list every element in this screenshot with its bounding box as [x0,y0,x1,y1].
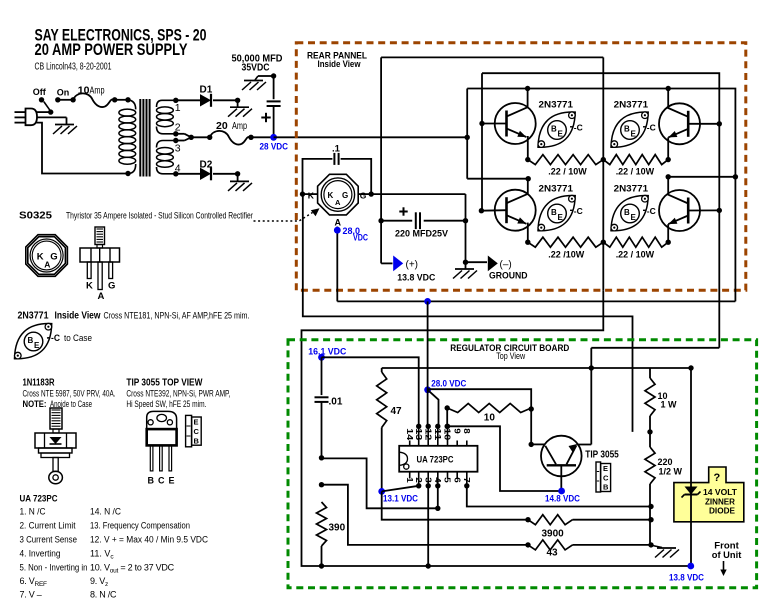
pin list row 4 [20,549,115,561]
IC U1 UA723PC body [399,446,477,472]
wire Q3 emitter [666,137,671,162]
svg-text:Cross NTE 5987, 50V PRV, 40A.: Cross NTE 5987, 50V PRV, 40A. [23,389,116,399]
svg-text:B: B [194,437,200,446]
svg-text:9: 9 [452,428,462,434]
capacitor .1 [303,153,372,194]
svg-text:2N3771: 2N3771 [614,184,649,195]
label 28.0 VDC reg [431,379,466,389]
plus output arrow [393,256,403,272]
thyristor K lead [300,191,318,196]
resistor R5 390 [317,458,327,569]
package Q4 [611,195,656,231]
label 2N3771 Q4 [614,184,649,195]
svg-text:14: 14 [405,428,415,440]
resistor R10 10 1W [645,368,655,435]
svg-text:TIP 3055: TIP 3055 [585,450,619,461]
resistor R9 43 [528,540,654,550]
svg-text:TIP 3055 TOP VIEW: TIP 3055 TOP VIEW [126,377,202,388]
svg-text:14 VOLT: 14 VOLT [703,488,737,497]
wire G to cap ground [371,194,465,262]
svg-text:A: A [98,291,105,302]
label 13.8 VDC out [669,573,704,583]
wire 13.8 output vertical [690,368,692,566]
wire 16.1 to pin13 [322,357,419,426]
wire TIP emitter down [590,368,592,445]
dotted annotation arrow to S0325 [254,208,320,221]
tap label 3 [175,142,181,154]
package Q2 [538,195,583,231]
svg-text:2N3771: 2N3771 [539,184,574,195]
label + C1 [261,113,270,122]
svg-text:47: 47 [391,406,403,417]
pin list row 5 [20,563,175,575]
svg-text:14.8 VDC: 14.8 VDC [545,494,580,504]
transistor Q5 TIP3055 [531,436,591,491]
wire pin7 line [467,486,654,509]
svg-text:Amp: Amp [90,84,105,96]
svg-text:7. V –: 7. V – [20,590,42,600]
svg-text:K: K [37,252,44,263]
node 28VDC [270,134,277,141]
svg-text:E: E [631,130,637,139]
node 28.0 VDC reg [424,386,431,393]
svg-text:Top View: Top View [496,351,525,362]
svg-text:3 Current Sense: 3 Current Sense [20,535,78,545]
wire 28.0V A-line [337,300,735,302]
node Q3 base [688,121,722,126]
transformer T1 secondary windings [157,100,176,174]
svg-text:7: 7 [462,477,472,483]
wire pin10 up [445,408,450,429]
label S0325 description [19,211,253,222]
label 10 1W [658,391,678,410]
svg-text:2N3771: 2N3771 [539,99,574,110]
label 3900 [542,528,565,539]
node Q4 base [688,208,722,213]
node TIP drive [529,442,534,447]
svg-text:13.8 VDC: 13.8 VDC [397,272,435,282]
ground regulator [655,548,679,558]
svg-text:4. Inverting: 4. Inverting [20,549,61,559]
switch On label [57,87,70,97]
svg-text:E: E [34,341,40,350]
node 16.1 VDC [318,354,325,361]
TIP3055 ECB side view [186,415,202,446]
wire R10 R11 to divider [650,507,662,548]
svg-text:12: 12 [423,428,433,440]
transformer T1 core [140,99,149,177]
svg-text:-C: -C [647,123,656,133]
capacitor C1 50000MFD [267,76,281,137]
svg-text:K: K [328,191,334,200]
tap label 4 [175,162,181,174]
wire to plus output [381,221,392,264]
2N3771 package sample [14,323,92,359]
wire 28.0 to R6 vert [428,389,534,444]
minus output arrow [488,256,498,272]
resistor R2 .22/10W [603,155,668,165]
svg-text:220: 220 [658,457,673,467]
wire tap1 to D1 [176,99,200,101]
wire pin4 loop [322,458,441,511]
IC U1 bottom pin labels [405,477,472,483]
svg-text:B: B [603,483,609,492]
svg-text:220 MFD25V: 220 MFD25V [395,228,448,238]
svg-text:4: 4 [433,477,443,483]
resistor R3 .22/10W [528,237,604,247]
svg-text:A: A [335,198,341,207]
svg-text:Amp: Amp [232,120,247,132]
wire D2 to ground [213,171,240,181]
wire Q4 emitter [666,224,671,245]
wire 28.0 to pin12 [427,301,429,426]
label 16.1 VDC [308,347,346,357]
svg-text:8: 8 [462,428,472,434]
wire plug to switch pole [37,111,51,113]
node 28.0 VDC at A [334,227,341,234]
svg-text:3: 3 [175,142,181,154]
svg-text:Off: Off [33,87,47,97]
ground at minus [453,269,477,279]
wire left base feed [481,73,483,211]
svg-text:A: A [335,218,342,228]
node 13.1 VDC [378,488,385,495]
svg-text:-C: -C [51,333,60,343]
wire 47 top rail [382,367,691,369]
svg-text:10: 10 [78,84,90,96]
svg-text:-C: -C [574,206,583,216]
resistor R11 220 1/2W [645,432,655,507]
node 13.8 VDC out [687,563,694,570]
svg-text:ZINNER: ZINNER [705,498,735,507]
label 390 [329,523,346,534]
label D2 [200,160,213,171]
label 10 Amp [78,84,105,96]
label 2N3771 Q2 [539,184,574,195]
node 14.8 VDC [558,488,565,495]
regulator border [288,340,757,588]
capacitor C2 220MFD25V [378,212,468,229]
package Q5 ECB view [596,462,611,492]
IC U1 bottom pin stubs [410,472,470,489]
svg-text:.22 / 10W: .22 / 10W [616,166,655,176]
svg-text:G: G [108,281,115,292]
label REAR PANNEL [307,50,367,70]
wire fuse to transformer [115,97,131,102]
label K outside [308,190,315,200]
svg-text:14. N /C: 14. N /C [90,507,121,517]
resistor R1 .22/10W [528,155,604,165]
label 28.0 VDC at A [343,226,369,242]
svg-text:11: 11 [433,428,443,440]
transformer T1 primary winding [119,100,136,176]
svg-text:NOTE:: NOTE: [23,399,47,409]
svg-text:E: E [194,418,199,427]
switch Off label [33,87,47,97]
svg-text:VDC: VDC [353,233,368,243]
subtitle date [35,62,112,73]
wire Q2 collector [527,179,529,194]
svg-text:1: 1 [175,102,181,114]
svg-text:UA 723PC: UA 723PC [417,454,454,464]
svg-text:16.1 VDC: 16.1 VDC [308,347,346,357]
ground at plug [53,125,77,135]
wire emitter bus [601,57,606,290]
ground at cap top [242,81,266,91]
ground after D1 [228,107,252,117]
IC U1 top pin labels [405,428,472,440]
svg-text:G: G [342,191,348,200]
fuse F1 10 Amp [73,93,117,107]
svg-text:E: E [603,464,608,473]
svg-text:G: G [50,252,57,263]
node Q2 base [479,208,507,213]
label .01 [329,397,343,408]
pin list row 2 [20,521,191,531]
wire G bus up [380,57,382,220]
svg-text:13.1 VDC: 13.1 VDC [383,494,418,504]
node 43 junction [319,482,324,487]
svg-text:to Case: to Case [64,333,92,343]
pin list row 3 [20,535,209,545]
svg-text:20 AMP POWER SUPPLY: 20 AMP POWER SUPPLY [35,40,188,59]
svg-text:-C: -C [574,123,583,133]
wire base bus [482,73,719,348]
resistor R7 47 [377,368,387,491]
wire K line [303,194,633,432]
svg-text:Inside View: Inside View [55,311,101,322]
label 1N1183R description [23,377,116,398]
svg-text:DIODE: DIODE [709,507,736,516]
thyristor S0325 symbol [318,174,359,215]
svg-text:UA 723PC: UA 723PC [20,494,58,505]
label REGULATOR CIRCUIT BOARD [450,343,569,362]
node TIP emitter junction [589,365,594,370]
svg-text:43: 43 [547,547,559,558]
label 13.8 VDC arrow [397,272,435,282]
label 20 Amp [216,120,247,132]
label R2 [616,166,655,176]
label ? on zener [714,472,721,484]
wire 28V feed vertical [465,89,531,182]
label Front of Unit [712,541,742,576]
label R1 [548,166,587,176]
wire Q1 collector [525,86,530,107]
svg-text:B: B [624,208,630,217]
capacitor C3 .01 [315,357,329,458]
wire collector bus [467,89,735,302]
label B C E [148,475,175,485]
svg-text:?: ? [714,472,721,484]
svg-text:B: B [148,475,155,485]
svg-text:of Unit: of Unit [712,550,742,561]
title line 2 [35,40,188,59]
wire plug to earth [37,117,67,124]
svg-text:5: 5 [443,477,453,483]
svg-text:2. Current Limit: 2. Current Limit [20,521,76,531]
resistor R8 3900 [528,515,654,525]
label 220 MFD25V [395,228,448,238]
svg-text:2N3771: 2N3771 [18,311,49,322]
svg-text:2: 2 [414,477,424,483]
svg-text:Cross NTE392, NPN-Si, PWR AMP,: Cross NTE392, NPN-Si, PWR AMP, [126,389,230,399]
wire 13.1 to 3900 [382,491,531,522]
label 2N3771 Q3 [614,99,649,110]
wire pin3 down [426,486,431,569]
package Q1 [538,112,583,148]
switch S1 [39,97,76,115]
transistor TIP3055 package [147,411,177,471]
label A stud [98,291,105,302]
wire 28VDC to rear panel [274,136,468,138]
zener diode D3 [682,487,701,498]
svg-text:10: 10 [443,428,453,440]
svg-text:C: C [158,475,165,485]
label R4 [616,250,655,260]
wire TIP emitter up [591,348,719,368]
node 13.8 top [688,365,693,370]
svg-text:6: 6 [452,477,462,483]
pin list row 6 [20,576,109,588]
wire 28.0 to pin11 [428,390,439,427]
wire Q2 emitter [525,223,530,245]
label GROUND [489,271,528,281]
svg-text:3: 3 [423,477,433,483]
wire cap top to ground [255,73,276,80]
title line 1 [35,26,207,45]
label 2N3771 Q1 [539,99,574,110]
label (+) [406,260,419,271]
svg-text:8. N /C: 8. N /C [90,590,117,600]
pin list row 7 [20,590,118,600]
transistor Q3 [659,103,700,144]
label UA 723PC list title [20,494,58,505]
fuse F2 20 Amp [210,131,274,145]
wire Q4 collector [666,174,739,194]
svg-text:B: B [551,125,557,134]
svg-text:-C: -C [647,206,656,216]
label NOTE anode [23,399,93,409]
label 220 1/2W [658,457,683,477]
label R3 [548,250,584,260]
svg-text:.01: .01 [329,397,343,408]
label 2N3771 description [18,311,250,322]
svg-text:10: 10 [484,413,496,424]
svg-text:GROUND: GROUND [489,271,528,281]
svg-text:CB Lincoln43, 8-20-2001: CB Lincoln43, 8-20-2001 [35,62,112,73]
label G stud [108,281,115,292]
svg-text:E: E [558,130,564,139]
label (-) [500,260,512,271]
resistor R4 .22/10W [603,237,668,247]
label K stud [86,281,93,292]
svg-text:E: E [169,475,175,485]
svg-text:390: 390 [329,523,346,534]
svg-text:1. N /C: 1. N /C [20,507,46,517]
thyristor A lead [336,227,338,302]
package Q3 [611,112,656,148]
svg-text:E: E [558,213,564,222]
transistor Q4 [659,190,700,231]
transistor Q2 [495,190,536,231]
svg-text:K: K [86,281,93,292]
wire tap4 to D2 [176,173,200,175]
wire D1 to ground [213,98,240,107]
rear panel border [296,43,746,290]
label 14.8 VDC [545,494,580,504]
ground after D2 [228,181,252,191]
svg-text:1N1183R: 1N1183R [23,377,56,388]
label 28 VDC [260,142,289,153]
node tap3 [173,138,178,143]
label TIP 3055 [585,450,619,461]
svg-text:.1: .1 [332,144,341,155]
svg-text:5. Non - Inverting in: 5. Non - Inverting in [20,563,88,573]
svg-text:Thyristor 35 Ampere Isolated -: Thyristor 35 Ampere Isolated - Stud Sili… [66,211,253,221]
node tap1 [173,98,178,103]
svg-text:G: G [360,190,367,200]
label A below [335,218,342,228]
wire Q3 collector [666,86,671,108]
AC plug [15,109,38,126]
svg-text:3900: 3900 [542,528,565,539]
diode D1 [200,94,211,107]
svg-text:1: 1 [405,477,415,483]
resistor R6 10 [445,404,532,413]
S0325 stud package [80,227,120,290]
svg-text:1 W: 1 W [661,400,678,410]
label 14 VOLT ZINNER DIODE [703,488,737,516]
wire pin10 to 14.8 [447,426,561,491]
svg-text:Hi Speed SW, hFE 25 mim.: Hi Speed SW, hFE 25 mim. [126,399,206,409]
IC U1 top pin stubs [410,424,467,446]
svg-text:(+): (+) [406,260,419,271]
svg-text:Cross NTE181, NPN-Si, AF AMP,h: Cross NTE181, NPN-Si, AF AMP,hFE 25 mim. [104,311,250,321]
svg-text:K: K [308,190,315,200]
label 50000 MFD [232,54,283,74]
node pin4 junction [319,455,324,460]
svg-text:1/2 W: 1/2 W [659,467,683,477]
svg-text:.22 / 10W: .22 / 10W [616,250,655,260]
pin list row 1 [20,507,122,517]
node tap2 [173,131,178,136]
S0325 octagon view [26,235,68,277]
wire 43 line [322,485,531,548]
wire Q1 emitter [525,136,530,162]
wire pin2 to 13.1 [382,486,419,492]
label TIP3055 description [126,377,230,409]
svg-text:(–): (–) [500,260,512,271]
svg-text:.22 / 10W: .22 / 10W [548,166,587,176]
label 43 [547,547,559,558]
wire to minus output [463,260,487,269]
label 13.1 VDC [383,494,418,504]
svg-text:13.8 VDC: 13.8 VDC [669,573,704,583]
svg-text:E: E [631,213,637,222]
wire center taps join [176,134,213,141]
label + C2 [399,207,407,215]
svg-text:12. V + = Max 40 / Min 9.5 VDC: 12. V + = Max 40 / Min 9.5 VDC [90,535,208,545]
wire plug bottom conductor [37,123,129,174]
node 28V to regulator [424,298,431,305]
tap label 1 [175,102,181,114]
svg-text:C: C [603,473,609,482]
label 47 [391,406,403,417]
svg-text:S0325: S0325 [19,211,52,222]
svg-text:On: On [57,87,70,97]
thyristor G lead [358,191,374,196]
transistor Q1 [495,103,536,144]
